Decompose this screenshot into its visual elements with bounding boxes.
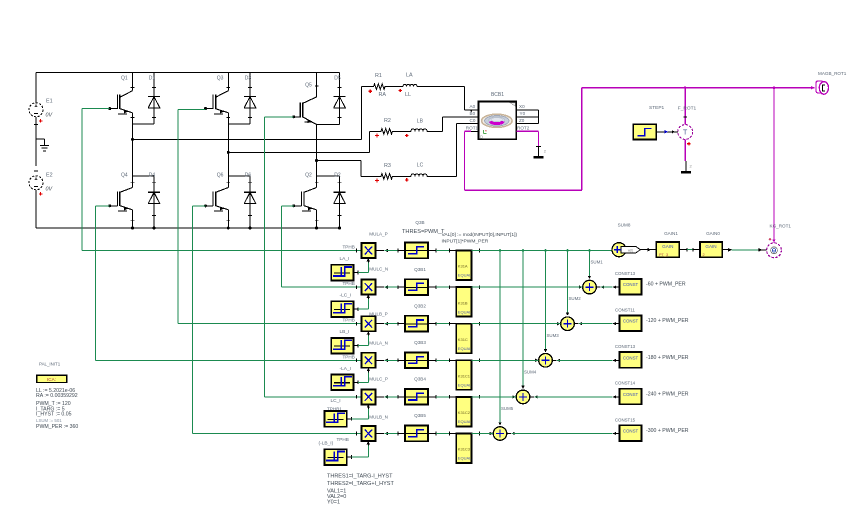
transistor Q3 (top IGBT leg 2) — [227, 73, 229, 91]
svg-text:SUM2: SUM2 — [569, 296, 582, 301]
wire multiplier out row 6 — [375, 433, 384, 435]
svg-text:E2: E2 — [46, 173, 53, 179]
wire bottom DC bus — [36, 227, 340, 229]
wire Q3 emitter to D3 — [228, 123, 250, 125]
diode D1 (top freewheel leg 1) — [153, 73, 155, 124]
svg-text:Q3B3: Q3B3 — [414, 340, 426, 345]
wire R1-LA — [387, 86, 403, 88]
wire E1 to ground node — [35, 117, 37, 166]
svg-text:Q4: Q4 — [121, 173, 128, 179]
wire gate Q6 to control row 6 — [192, 205, 205, 207]
svg-text:VAL[0] := mod(INPUT[0],INPUT[1: VAL[0] := mod(INPUT[0],INPUT[1]) — [442, 232, 518, 238]
svg-text:CONST: CONST — [623, 282, 639, 287]
svg-text:D6: D6 — [245, 173, 252, 179]
svg-text:MULB_P: MULB_P — [369, 312, 387, 317]
svg-text:Q3B1: Q3B1 — [414, 267, 426, 272]
svg-text:X0: X0 — [519, 104, 525, 109]
voltage source E1 — [29, 103, 43, 117]
wire row6 output to summer — [472, 433, 493, 435]
wire multiplier out row 2 — [375, 286, 384, 288]
svg-text:T: T — [683, 130, 688, 137]
svg-text:MULB_N: MULB_N — [369, 415, 388, 420]
wire SUM8 to GAIN1 — [640, 249, 656, 251]
svg-text:SUM4: SUM4 — [524, 369, 537, 374]
svg-text:(-LB_I): (-LB_I) — [319, 441, 334, 447]
wire row3 into SUM2 — [557, 322, 560, 326]
svg-text:THRES1=I_TARG-I_HYST: THRES1=I_TARG-I_HYST — [327, 473, 393, 479]
svg-text:Q1: Q1 — [121, 76, 128, 82]
wire leg 1 phase node vertical — [132, 124, 134, 176]
svg-text:TPHB: TPHB — [337, 437, 349, 442]
inductor LB — [411, 129, 427, 132]
mechanical anchor A1 — [685, 161, 687, 171]
function block K31A — [456, 251, 471, 281]
multiplier MULB_P — [361, 316, 375, 331]
summer SUM4 — [516, 390, 530, 404]
wire R3-LC — [395, 175, 412, 177]
svg-text:INPUT[1]*PWM_PER: INPUT[1]*PWM_PER — [442, 238, 489, 244]
svg-text:CONST11: CONST11 — [615, 308, 635, 313]
step source STEP1 — [633, 124, 656, 139]
transistor Q5 (top IGBT leg 3) — [316, 73, 318, 97]
comparator Q3B2 — [405, 316, 428, 332]
svg-text:STEP1: STEP1 — [649, 105, 665, 111]
svg-text:MULC_N: MULC_N — [369, 267, 388, 272]
wire shaft bus top — [582, 87, 815, 89]
svg-text:CONST: CONST — [623, 355, 639, 360]
function block K31C3 — [456, 434, 471, 464]
svg-text:-300 + PWM_PER: -300 + PWM_PER — [646, 428, 689, 434]
wire row1 modulation bus — [472, 250, 613, 252]
svg-text:TPHB: TPHB — [343, 354, 355, 359]
wire GAIN0 to KG_ROT1 — [722, 249, 731, 251]
comparator Q3B1 — [405, 279, 428, 295]
svg-text:MULA_P: MULA_P — [369, 232, 387, 237]
wire comparator out row 4 — [428, 359, 436, 361]
svg-text:Z0: Z0 — [519, 118, 525, 123]
diode D6 (bottom freewheel leg 2) — [249, 176, 251, 228]
wire multiplier out row 3 — [375, 323, 384, 325]
svg-text:Q5: Q5 — [305, 83, 312, 89]
svg-text:R2: R2 — [384, 118, 391, 124]
svg-text:-120 + PWM_PER: -120 + PWM_PER — [646, 318, 689, 324]
svg-text:B0: B0 — [470, 111, 476, 116]
gain GAIN1 — [656, 242, 679, 257]
wire hysteresis out row 5 — [347, 418, 352, 420]
wire E2 to bottom bus — [35, 190, 37, 228]
summer SUM1 — [583, 280, 597, 294]
svg-text:EQUAL: EQUAL — [458, 383, 472, 388]
function block K31C2 — [456, 397, 471, 427]
svg-text:R3: R3 — [384, 163, 391, 169]
svg-text:EQUAL: EQUAL — [458, 456, 472, 461]
constant CONST13 — [619, 352, 641, 368]
svg-text:BCB1: BCB1 — [491, 92, 504, 98]
wire gate Q4 to control row 4 — [96, 205, 110, 207]
wire comparator out row 3 — [428, 323, 436, 325]
svg-text:SUM5: SUM5 — [501, 406, 514, 411]
svg-text:EQUAL: EQUAL — [458, 273, 472, 278]
wire comparator out row 5 — [428, 396, 436, 398]
svg-text:GAIN: GAIN — [705, 244, 716, 249]
svg-text:THRES2=I_TARG+I_HYST: THRES2=I_TARG+I_HYST — [327, 481, 394, 487]
wire GAIN1 to GAIN0 — [679, 249, 687, 251]
wire phase B rail — [228, 151, 369, 153]
svg-text:K31B: K31B — [458, 300, 468, 305]
hysteresis block TPHB row 1 — [331, 265, 353, 281]
wire comparator out row 2 — [428, 286, 436, 288]
function block K31B — [456, 287, 471, 317]
multiplier MULA_P — [361, 243, 375, 258]
svg-text:LA_I: LA_I — [340, 256, 350, 262]
svg-text:LB_I: LB_I — [340, 329, 350, 335]
constant CONST13 — [619, 279, 641, 295]
diode D2 (bottom freewheel leg 3) — [339, 176, 341, 228]
wire row6 into SUM5 — [489, 432, 492, 436]
hysteresis block TPHB row 2 — [331, 301, 353, 317]
svg-text:C0: C0 — [470, 118, 476, 123]
wire shaft ROT2 to anchor — [516, 130, 538, 132]
wire LA to motor pin A — [417, 86, 464, 88]
wire gate Q1 to control row 1 — [82, 108, 110, 110]
svg-text:GAIN1: GAIN1 — [664, 231, 678, 236]
wire row2 into SUM1 — [579, 285, 582, 289]
svg-text:PAL_INIT1: PAL_INIT1 — [39, 362, 61, 367]
svg-text:CONST14: CONST14 — [615, 381, 636, 386]
svg-text:Y0: Y0 — [520, 111, 526, 116]
svg-text:K31C: K31C — [458, 337, 468, 342]
wire row4 output to summer — [472, 359, 539, 361]
svg-text:Q2: Q2 — [305, 173, 312, 179]
svg-text:D1: D1 — [149, 76, 156, 82]
svg-text:-180 + PWM_PER: -180 + PWM_PER — [646, 355, 689, 361]
wire left DC rail upper — [35, 73, 37, 103]
torque load F_ROT1 — [684, 88, 686, 125]
summer SUM2 — [561, 317, 575, 331]
constant CONST14 — [619, 389, 641, 405]
wire row1 tap to SUM4 — [522, 251, 524, 389]
svg-text:LSUM := 501: LSUM := 501 — [36, 418, 62, 423]
transistor Q2 (bottom IGBT leg 3) — [316, 176, 318, 188]
wire SUM5 to CONST15 — [507, 433, 511, 435]
summer SUM3 — [539, 354, 553, 368]
function block K31C — [456, 324, 471, 354]
wire SUM4 to CONST14 — [530, 396, 534, 398]
svg-text:-LA_I: -LA_I — [340, 366, 351, 372]
svg-text:R1: R1 — [375, 73, 382, 79]
svg-text:2: 2 — [703, 253, 705, 257]
svg-text:F_ROT1: F_ROT1 — [678, 106, 697, 112]
svg-text:CONST15: CONST15 — [615, 417, 636, 422]
wire motor star point X0/Y0/Z0 — [516, 109, 538, 111]
diode D3 (top freewheel leg 2) — [249, 73, 251, 124]
svg-text:LC_I: LC_I — [331, 398, 341, 404]
wire row1 tap to SUM3 — [545, 251, 547, 352]
svg-text:THRES=PWM_T: THRES=PWM_T — [402, 229, 445, 235]
svg-text:LL: LL — [405, 92, 411, 98]
svg-text:GAIN0: GAIN0 — [706, 231, 720, 236]
mechanical anchor A2 — [536, 146, 541, 148]
wire gate Q3 to control row 3 — [178, 108, 206, 110]
svg-text:ROT1: ROT1 — [466, 126, 479, 131]
speed sensor KG_ROT1 — [773, 88, 775, 243]
multiplier MULC_N — [361, 280, 375, 295]
wire row5 into SUM4 — [512, 395, 515, 399]
svg-text:CONST13: CONST13 — [615, 271, 636, 276]
comparator Q3B5 — [405, 426, 428, 442]
wire SUM2 to CONST11 — [575, 323, 579, 325]
wire hysteresis out row 6 — [347, 456, 352, 458]
function block K31C1 — [456, 360, 471, 390]
wire leg 2 phase node vertical — [227, 124, 229, 176]
comparator Q3B3 — [405, 352, 428, 368]
svg-text:A0: A0 — [470, 104, 476, 109]
svg-text:-60 + PWM_PER: -60 + PWM_PER — [646, 282, 686, 288]
wire Q2 collector to D2 — [317, 175, 340, 177]
svg-text:-240 + PWM_PER: -240 + PWM_PER — [646, 391, 689, 397]
svg-text:TPHB: TPHB — [343, 318, 355, 323]
hysteresis block TPHB row 5 — [324, 411, 346, 427]
svg-text:K31C2: K31C2 — [458, 410, 471, 415]
constant CONST11 — [619, 316, 641, 332]
svg-text:K31C1: K31C1 — [458, 374, 471, 379]
svg-text:K31C3: K31C3 — [458, 447, 471, 452]
svg-text:w(t): w(t) — [628, 249, 633, 253]
wire multiplier out row 5 — [375, 396, 384, 398]
wire multiplier out row 1 — [375, 250, 384, 252]
svg-text:Y0=1: Y0=1 — [327, 500, 340, 506]
svg-text:GAIN: GAIN — [662, 244, 673, 249]
svg-text:CONST13: CONST13 — [615, 344, 636, 349]
wire hysteresis out row 2 — [354, 308, 359, 310]
hysteresis block TPHB row 6 — [324, 449, 346, 465]
wire comparator out row 1 — [428, 250, 436, 252]
svg-text:EQUAL: EQUAL — [458, 419, 472, 424]
wire top DC bus — [36, 72, 340, 74]
svg-text:PT_3: PT_3 — [659, 253, 668, 257]
resistor R1 (RA) — [362, 86, 372, 88]
comparator Q3B4 — [405, 389, 428, 405]
summer SUM8 — [612, 243, 626, 257]
svg-text:SUM3: SUM3 — [547, 333, 560, 338]
svg-text:Q3B4: Q3B4 — [414, 377, 426, 382]
svg-text:PWM_PER := 360: PWM_PER := 360 — [36, 424, 78, 430]
svg-text:RA := 0.00359292: RA := 0.00359292 — [36, 393, 78, 399]
svg-text:LC: LC — [417, 162, 424, 168]
comparator Q3B — [405, 243, 428, 259]
wire gate Q2 to control row 2 — [282, 205, 294, 207]
wire row4 into SUM3 — [535, 359, 538, 363]
summer SUM5 — [493, 427, 507, 441]
svg-text:Q3B5: Q3B5 — [414, 413, 426, 418]
svg-text:LB: LB — [417, 118, 424, 124]
voltage source E2 — [29, 176, 43, 190]
wire row1 tap to SUM5 — [499, 251, 501, 426]
svg-text:SUM1: SUM1 — [591, 260, 604, 265]
svg-text:D: D — [480, 135, 483, 140]
svg-text:K31A: K31A — [458, 264, 468, 269]
multiplier MULA_N — [361, 353, 375, 368]
svg-text:EQUAL: EQUAL — [458, 346, 472, 351]
wire LC to motor pin C — [427, 175, 457, 177]
wire SUM1 to CONST13 — [597, 286, 601, 288]
wire row3 output to summer — [472, 323, 561, 325]
svg-text:MAGB_ROT1: MAGB_ROT1 — [818, 71, 847, 76]
multiplier MULB_N — [361, 426, 375, 441]
svg-text:I_HYST := 0.05: I_HYST := 0.05 — [36, 412, 72, 418]
wire row1 tap to SUM2 — [567, 251, 569, 316]
svg-text:-LC_I: -LC_I — [340, 293, 352, 299]
machine axis icon — [483, 132, 486, 134]
wire phase A rail — [133, 138, 362, 140]
svg-text:CONST: CONST — [623, 319, 639, 324]
resistor R3 — [361, 175, 379, 177]
inductor LC — [411, 174, 427, 176]
wire hysteresis out row 3 — [354, 345, 359, 347]
svg-text:TPHB: TPHB — [343, 281, 355, 286]
wire Q4 collector to D4 — [133, 175, 155, 177]
wire gate Q5 to control row 5 — [265, 116, 294, 118]
wire Q1 emitter to D1 — [133, 123, 155, 125]
speed sensor MAGB_ROT1 — [811, 86, 814, 90]
wire phase C rail — [317, 160, 362, 162]
wire LB to motor pin B — [427, 130, 443, 132]
wire Q5 emitter to D5 — [317, 124, 340, 126]
constant CONST15 — [619, 425, 641, 441]
wire F_ROT1 to anchor — [684, 139, 686, 161]
diode D5 (top freewheel leg 3) — [339, 73, 341, 125]
wire leg 3 phase node vertical — [316, 125, 318, 176]
ground G1 — [36, 138, 44, 140]
hysteresis block TPHB row 3 — [331, 338, 353, 354]
svg-text:CONST: CONST — [623, 392, 639, 397]
gain GAIN0 — [700, 242, 722, 257]
wire SUM3 to CONST13 — [553, 359, 557, 361]
transistor Q1 (top IGBT leg 1) — [132, 73, 134, 91]
wire shaft ROT1 (speed net) — [471, 130, 478, 132]
svg-text:CONST: CONST — [623, 429, 639, 434]
wire STEP1 to F_ROT1 — [656, 131, 677, 133]
svg-text:MULA_N: MULA_N — [369, 340, 388, 345]
induction machine BCB1 — [478, 102, 516, 140]
wire multiplier out row 4 — [375, 359, 384, 361]
wire row1 tap to SUM1 — [589, 251, 591, 279]
hysteresis block TPHB row 4 — [331, 375, 353, 391]
wire Q6 collector to D6 — [228, 175, 250, 177]
transistor Q4 (bottom IGBT leg 1) — [132, 176, 134, 188]
wire comparator out row 6 — [428, 433, 436, 435]
svg-text:D2: D2 — [334, 173, 341, 179]
svg-text:EQUAL: EQUAL — [458, 309, 472, 314]
multiplier MULC_P — [361, 389, 375, 404]
svg-text:LA: LA — [406, 73, 413, 79]
svg-text:ICA:: ICA: — [47, 377, 56, 382]
inductor LA (LL) — [403, 84, 417, 86]
diode D4 (bottom freewheel leg 1) — [153, 176, 155, 228]
svg-text:Q3B: Q3B — [415, 220, 424, 225]
svg-text:Q3: Q3 — [217, 76, 224, 82]
svg-text:E1: E1 — [46, 99, 53, 105]
svg-text:Q6: Q6 — [217, 173, 224, 179]
svg-text:D4: D4 — [149, 173, 156, 179]
wire hysteresis out row 1 — [354, 272, 359, 274]
wire hysteresis out row 4 — [354, 381, 359, 383]
wire row5 output to summer — [472, 396, 516, 398]
svg-text:SUM8: SUM8 — [618, 223, 631, 228]
svg-text:Q3B2: Q3B2 — [414, 303, 426, 308]
wire row2 output to summer — [472, 286, 583, 288]
transistor Q6 (bottom IGBT leg 2) — [227, 176, 229, 188]
svg-text:MULC_P: MULC_P — [369, 376, 388, 381]
svg-text:KG_ROT1: KG_ROT1 — [770, 223, 792, 228]
svg-text:TPHB: TPHB — [343, 245, 355, 250]
resistor R2 — [370, 130, 380, 132]
svg-text:D5: D5 — [334, 76, 341, 82]
svg-text:ROT2: ROT2 — [517, 126, 530, 131]
wire R2-LB — [395, 130, 412, 132]
svg-text:RA: RA — [379, 92, 387, 98]
svg-text:D3: D3 — [245, 76, 252, 82]
